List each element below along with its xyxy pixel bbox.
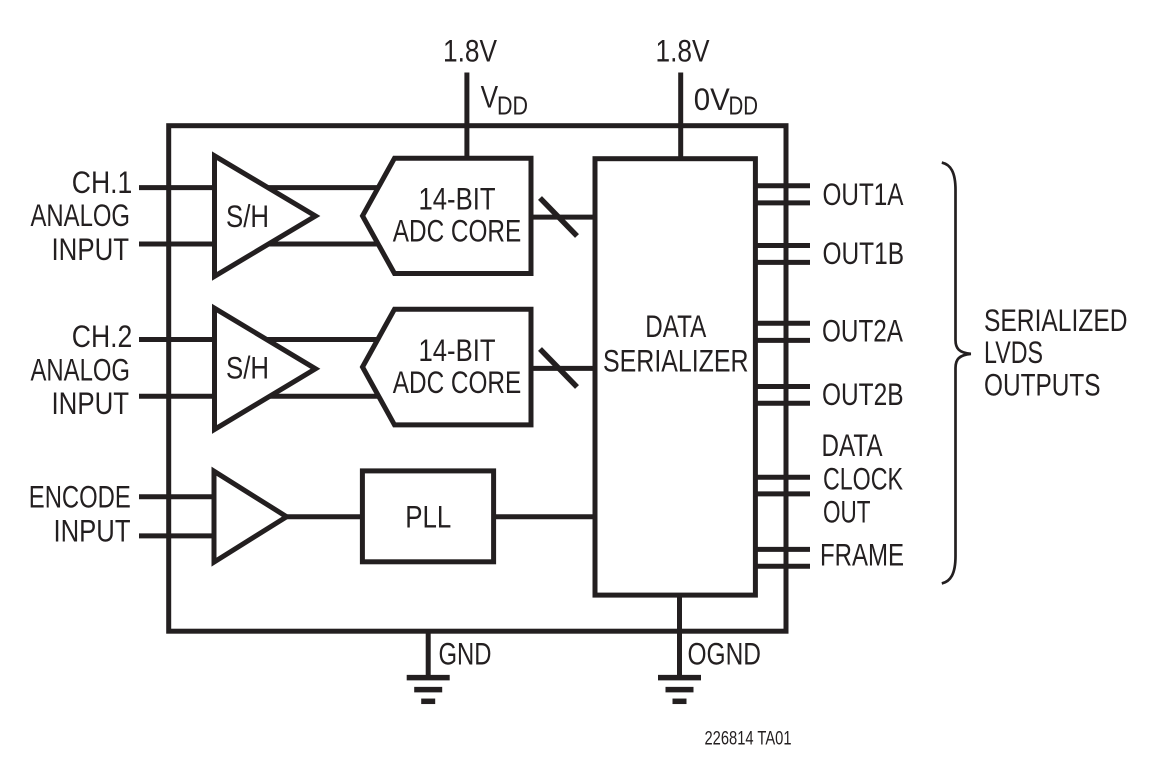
wire FRAME pair [753,549,810,566]
svg-text:226814 TA01: 226814 TA01 [705,727,792,749]
svg-text:ADC CORE: ADC CORE [393,213,522,249]
svg-text:SERIALIZER: SERIALIZER [603,343,749,379]
svg-text:OUT1B: OUT1B [823,235,905,271]
wire OVDD supply [678,73,683,161]
svg-text:PLL: PLL [405,498,451,534]
svg-text:FRAME: FRAME [820,536,904,572]
block ADC core 1 [363,158,532,273]
wire CH1 input pair [139,188,400,244]
svg-text:1.8V: 1.8V [656,32,710,68]
wire ENCODE input pair [139,497,218,536]
wire ADC1 bus to serializer [528,215,597,220]
svg-text:1.8V: 1.8V [443,32,497,68]
wire OUT2B pair [753,387,810,404]
svg-text:GND: GND [439,636,492,672]
svg-text:DATA: DATA [822,427,884,463]
svg-text:DATA: DATA [645,308,707,344]
svg-text:INPUT: INPUT [54,512,131,548]
op-amp S/H 2 [215,308,316,429]
wire OUT2A pair [753,323,810,340]
svg-text:OUT: OUT [823,493,871,529]
svg-text:ANALOG: ANALOG [31,352,131,388]
wire VDD supply [464,73,469,161]
svg-text:S/H: S/H [226,198,269,234]
buffer encode amp [214,471,287,562]
svg-text:DD: DD [729,91,759,121]
bus slash 2 [540,349,577,387]
svg-text:LVDS: LVDS [984,334,1043,370]
bus slash 1 [540,198,577,236]
wire OUT1A pair [753,186,810,203]
brace serialized outputs [942,163,971,584]
wire CH2 input pair [139,340,400,397]
block data serializer [595,159,755,595]
svg-text:OUT2A: OUT2A [822,312,904,348]
svg-text:CH.1: CH.1 [72,164,133,200]
svg-text:14-BIT: 14-BIT [419,181,496,217]
wire encode buffer to PLL [280,514,365,519]
svg-text:S/H: S/H [226,350,269,386]
svg-text:OUT2B: OUT2B [822,376,904,412]
svg-text:CLOCK: CLOCK [823,461,903,497]
svg-text:INPUT: INPUT [52,231,130,267]
wire ADC2 bus to serializer [528,366,597,371]
wire DATA CLOCK OUT pair [753,477,810,494]
ground OGND [658,678,701,702]
svg-text:OUT1A: OUT1A [823,176,905,212]
svg-text:CH.2: CH.2 [72,318,133,354]
svg-text:OGND: OGND [688,636,762,672]
svg-text:OUTPUTS: OUTPUTS [984,367,1101,403]
ground GND [407,678,450,702]
wire PLL to data serializer [491,514,597,519]
svg-text:INPUT: INPUT [52,385,130,421]
svg-text:V: V [481,79,499,115]
chip outline box [169,126,786,632]
svg-text:ADC CORE: ADC CORE [393,364,522,400]
svg-text:ANALOG: ANALOG [31,197,131,233]
svg-text:DD: DD [497,91,528,121]
svg-text:ENCODE: ENCODE [29,479,131,515]
wire OGND stub [677,593,682,677]
wire GND stub [426,631,431,677]
block PLL [362,471,493,562]
svg-text:14-BIT: 14-BIT [419,332,496,368]
wire OUT1B pair [753,246,810,263]
svg-text:SERIALIZED: SERIALIZED [984,302,1128,338]
block ADC core 2 [363,309,532,425]
op-amp S/H 1 [215,156,316,276]
svg-text:0V: 0V [694,81,730,117]
